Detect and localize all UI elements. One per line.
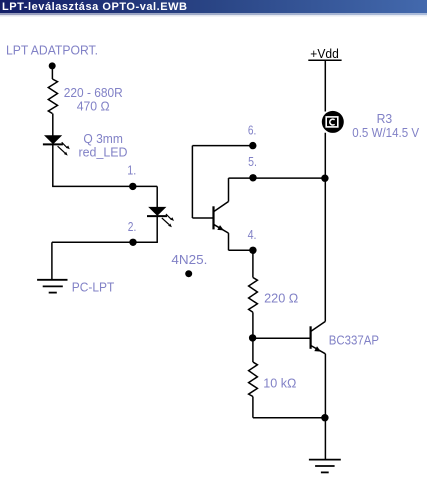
svg-text:5.: 5.	[248, 154, 257, 169]
svg-text:R3: R3	[377, 111, 393, 126]
svg-text:+Vdd: +Vdd	[310, 46, 339, 61]
svg-text:PC-LPT: PC-LPT	[72, 280, 115, 295]
svg-text:6.: 6.	[248, 123, 256, 138]
svg-text:10 kΩ: 10 kΩ	[263, 375, 296, 390]
svg-text:4.: 4.	[248, 227, 257, 242]
svg-text:0.5 W/14.5 V: 0.5 W/14.5 V	[352, 125, 419, 140]
svg-text:LPT-leválasztása OPTO-val.EWB: LPT-leválasztása OPTO-val.EWB	[2, 1, 187, 13]
svg-text:2.: 2.	[128, 219, 137, 234]
svg-text:LPT ADATPORT.: LPT ADATPORT.	[6, 42, 98, 57]
svg-text:red_LED: red_LED	[79, 144, 128, 159]
svg-text:BC337AP: BC337AP	[329, 333, 379, 348]
svg-text:4N25.: 4N25.	[171, 252, 207, 267]
svg-text:470 Ω: 470 Ω	[77, 99, 110, 114]
svg-text:1.: 1.	[127, 162, 136, 177]
svg-text:220 Ω: 220 Ω	[264, 290, 298, 305]
